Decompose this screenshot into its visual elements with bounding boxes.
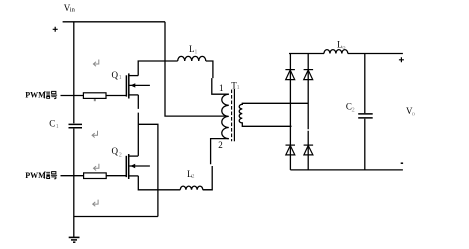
svg-text:o: o [412,111,415,118]
transformer secondary [239,103,308,126]
CJK glyph 信 row1 [44,91,50,98]
CJK glyph 号 row1 [51,91,57,98]
wire PWM1 to resistor [61,95,84,97]
wire node 2 down [203,139,229,190]
svg-text:1: 1 [219,83,224,93]
wire L2 to node 2 drop [203,189,212,191]
wire left rail upper [73,22,75,124]
svg-text:2: 2 [119,152,122,159]
svg-text:PWM: PWM [25,171,46,180]
wire Q2 source to L2 [138,176,180,190]
svg-text:2: 2 [352,106,355,113]
wire Q1 source down [137,95,139,156]
wire top rail Vin [63,21,165,23]
resistor R2 [84,173,107,179]
plus sign output [399,57,404,62]
svg-text:Q: Q [112,70,119,80]
diode D2 [304,70,314,80]
capacitor C1 [69,124,83,127]
svg-text:o: o [342,44,345,51]
svg-text:PWM: PWM [25,91,46,100]
bridge left branch [289,54,291,170]
transformer core [231,90,233,142]
transistor Q2 [126,154,150,179]
svg-text:Q: Q [112,146,119,156]
capacitor C2 [364,54,366,114]
minus sign output [401,162,403,164]
svg-text:C: C [49,119,55,129]
wire resistor to Q2 gate [106,175,126,177]
svg-text:2: 2 [191,173,194,180]
wire bottom rail [74,216,158,218]
wire mid junction to right drop [138,124,158,216]
pilcrow marks [92,60,99,207]
transistor Q1 [126,73,149,98]
svg-text:2: 2 [218,140,223,150]
diode D1 [285,70,295,80]
svg-text:1: 1 [194,49,197,56]
inductor L1 [178,56,206,61]
CJK glyph 号 row2 [51,172,57,179]
diode D4 [304,145,314,155]
wire output top rail [348,53,403,55]
wire Q1 drain up to L1 [138,61,178,76]
wire L1 to node 1 [206,61,213,78]
wire center-tap feed [165,22,228,116]
inductor L2 [180,186,202,190]
wire PWM2 to resistor [61,175,84,177]
inductor L output [324,50,348,54]
ground [69,236,80,238]
wire bridge top rail [289,53,324,55]
transformer T1 primary [222,94,229,138]
svg-text:1: 1 [56,123,59,130]
diode D3 [286,145,296,155]
wire bridge/output bottom rail [290,169,403,171]
bridge right branch [307,54,309,170]
svg-text:1: 1 [237,84,240,91]
stray gray tick under R1 [94,99,96,101]
resistor R1 [83,93,106,99]
wire left rail lower [73,129,75,238]
CJK glyph 信 row2 [44,171,50,178]
svg-text:1: 1 [119,74,122,81]
plus sign input [53,27,58,32]
wire resistor to Q1 gate [106,95,126,97]
svg-text:in: in [70,7,76,14]
